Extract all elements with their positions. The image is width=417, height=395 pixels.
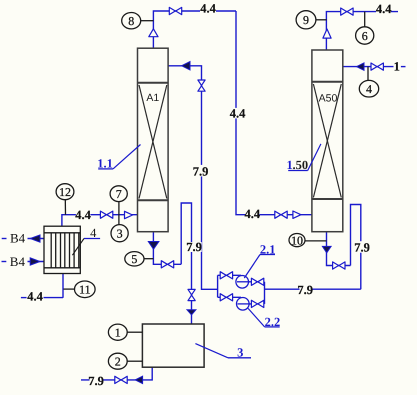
svg-text:3: 3 [117,227,123,241]
svg-text:4.4: 4.4 [75,208,91,222]
svg-text:9: 9 [303,13,309,27]
svg-text:7.9: 7.9 [297,283,313,297]
svg-text:4.4: 4.4 [244,207,260,221]
svg-text:8: 8 [128,14,134,28]
svg-text:7.9: 7.9 [88,374,104,388]
svg-text:B4: B4 [10,254,26,269]
svg-text:1.1: 1.1 [97,156,113,170]
svg-text:1: 1 [115,326,121,340]
svg-text:11: 11 [79,283,91,297]
svg-text:7: 7 [116,187,122,201]
svg-text:7.9: 7.9 [354,241,370,255]
svg-text:.50: .50 [293,158,309,172]
svg-text:A1: A1 [146,92,159,104]
svg-text:B4: B4 [10,231,26,246]
svg-text:6: 6 [362,29,368,43]
svg-text:12: 12 [59,185,71,199]
svg-text:4.4: 4.4 [376,2,392,16]
svg-text:A50: A50 [319,93,338,105]
svg-text:7.9: 7.9 [193,165,209,179]
svg-text:4.4: 4.4 [27,290,43,304]
svg-text:4.4: 4.4 [200,2,216,16]
svg-text:10: 10 [291,233,303,247]
svg-text:4.4: 4.4 [230,106,246,120]
svg-text:5: 5 [131,252,137,266]
svg-text:2: 2 [115,355,121,369]
svg-text:7.9: 7.9 [186,240,202,254]
svg-text:4: 4 [366,82,372,96]
svg-text:1: 1 [394,60,400,74]
